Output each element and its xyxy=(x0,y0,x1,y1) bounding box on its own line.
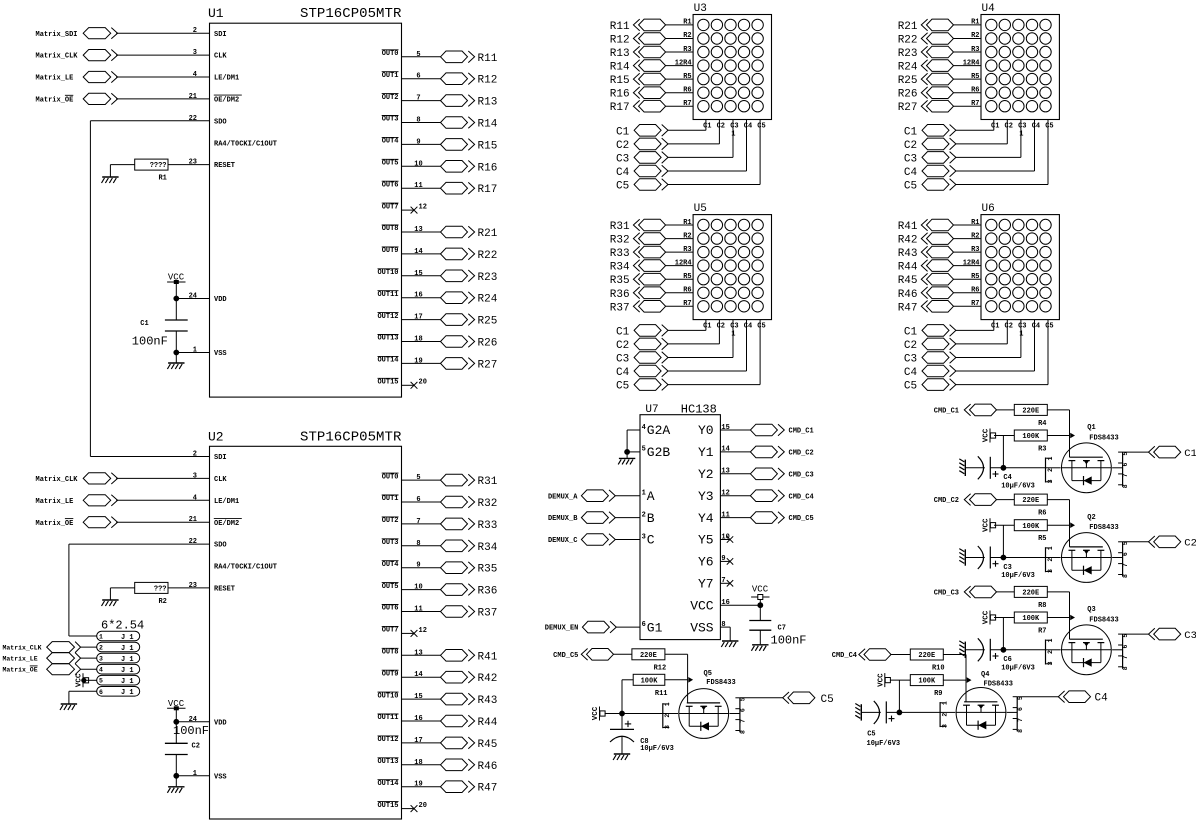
svg-text:13: 13 xyxy=(414,226,422,234)
svg-text:OUT14: OUT14 xyxy=(377,780,398,788)
svg-text:R17: R17 xyxy=(610,102,630,114)
svg-text:CMD_C1: CMD_C1 xyxy=(934,408,959,416)
svg-text:3: 3 xyxy=(1047,569,1054,573)
svg-text:12: 12 xyxy=(721,490,729,498)
svg-text:C1: C1 xyxy=(991,322,999,330)
svg-text:OE/DM2: OE/DM2 xyxy=(214,97,239,105)
svg-text:SDO: SDO xyxy=(214,118,227,126)
svg-text:7: 7 xyxy=(1122,563,1129,567)
svg-text:R9: R9 xyxy=(934,690,942,698)
svg-text:21: 21 xyxy=(189,93,197,101)
svg-text:R8: R8 xyxy=(1038,602,1046,610)
svg-text:OUT6: OUT6 xyxy=(382,605,399,613)
svg-text:VSS: VSS xyxy=(690,620,714,635)
svg-text:9: 9 xyxy=(416,562,420,570)
svg-text:22: 22 xyxy=(189,115,197,123)
svg-text:????: ???? xyxy=(150,162,167,170)
svg-text:1: 1 xyxy=(1047,639,1054,643)
svg-text:R23: R23 xyxy=(898,48,918,60)
svg-text:VCC: VCC xyxy=(877,673,885,687)
svg-text:R3: R3 xyxy=(971,46,979,54)
svg-text:C2: C2 xyxy=(616,340,629,352)
svg-text:C4: C4 xyxy=(904,367,918,379)
svg-text:10: 10 xyxy=(414,584,422,592)
svg-text:C3: C3 xyxy=(1184,630,1196,642)
svg-text:RESET: RESET xyxy=(214,586,235,594)
svg-text:C5: C5 xyxy=(821,694,834,706)
svg-text:R16: R16 xyxy=(478,162,498,174)
svg-text:R27: R27 xyxy=(478,359,498,371)
svg-text:C3: C3 xyxy=(616,153,629,165)
svg-text:6: 6 xyxy=(740,708,747,712)
svg-text:R7: R7 xyxy=(1038,628,1046,636)
svg-text:6: 6 xyxy=(1122,644,1129,648)
svg-text:LE/DM1: LE/DM1 xyxy=(214,75,239,83)
svg-text:U2: U2 xyxy=(208,429,224,444)
svg-text:R33: R33 xyxy=(478,520,498,532)
svg-text:16: 16 xyxy=(414,292,422,300)
svg-text:3: 3 xyxy=(99,656,103,663)
svg-text:6: 6 xyxy=(416,496,420,504)
svg-text:U6: U6 xyxy=(982,203,995,215)
svg-text:C5: C5 xyxy=(757,122,765,130)
svg-text:R24: R24 xyxy=(478,294,498,306)
svg-text:C4: C4 xyxy=(744,122,752,130)
svg-text:U5: U5 xyxy=(694,203,707,215)
svg-text:100nF: 100nF xyxy=(132,335,168,349)
svg-text:R1: R1 xyxy=(971,219,979,227)
svg-text:R22: R22 xyxy=(898,35,918,47)
svg-text:10: 10 xyxy=(414,160,422,168)
svg-text:10µF/6V3: 10µF/6V3 xyxy=(1001,482,1035,490)
svg-text:R12: R12 xyxy=(478,75,498,87)
svg-text:R11: R11 xyxy=(610,21,630,33)
svg-text:1: 1 xyxy=(193,347,197,355)
svg-text:C5: C5 xyxy=(1045,122,1053,130)
svg-text:C4: C4 xyxy=(744,322,752,330)
svg-text:OUT1: OUT1 xyxy=(382,495,399,503)
svg-text:100K: 100K xyxy=(1022,433,1040,441)
svg-text:R6: R6 xyxy=(971,87,979,95)
svg-text:R5: R5 xyxy=(683,273,691,281)
svg-text:6: 6 xyxy=(416,73,420,81)
svg-text:VCC: VCC xyxy=(168,699,185,709)
svg-text:6: 6 xyxy=(1122,462,1129,466)
svg-text:C2: C2 xyxy=(1005,322,1013,330)
svg-text:R42: R42 xyxy=(478,673,498,685)
svg-text:R7: R7 xyxy=(683,300,691,308)
svg-text:R31: R31 xyxy=(610,221,630,233)
svg-text:CMD_C2: CMD_C2 xyxy=(934,497,959,505)
svg-text:C7: C7 xyxy=(778,625,786,633)
svg-text:5: 5 xyxy=(416,51,420,59)
svg-text:3: 3 xyxy=(664,725,671,729)
svg-text:SDI: SDI xyxy=(214,31,227,39)
svg-text:CMD_C2: CMD_C2 xyxy=(789,450,814,458)
svg-text:R7: R7 xyxy=(971,300,979,308)
svg-text:2: 2 xyxy=(99,645,103,652)
svg-text:Matrix_LE: Matrix_LE xyxy=(3,656,38,663)
svg-text:R1: R1 xyxy=(683,19,691,27)
svg-text:R45: R45 xyxy=(898,275,918,287)
svg-text:VCC: VCC xyxy=(168,273,185,283)
svg-text:R34: R34 xyxy=(610,262,630,274)
svg-text:2: 2 xyxy=(941,713,948,717)
svg-text:Y1: Y1 xyxy=(698,445,714,460)
svg-text:R26: R26 xyxy=(478,338,498,350)
svg-text:CLK: CLK xyxy=(214,476,227,484)
svg-text:CMD_C5: CMD_C5 xyxy=(553,652,578,660)
svg-text:OUT15: OUT15 xyxy=(377,802,398,810)
svg-text:3: 3 xyxy=(941,724,948,728)
svg-text:R15: R15 xyxy=(610,75,630,87)
svg-text:R2: R2 xyxy=(683,232,691,240)
svg-text:4: 4 xyxy=(99,667,103,674)
svg-text:C2: C2 xyxy=(904,340,917,352)
svg-text:R6: R6 xyxy=(971,287,979,295)
svg-text:C5: C5 xyxy=(904,181,917,193)
svg-text:R11: R11 xyxy=(478,53,498,65)
svg-text:R31: R31 xyxy=(478,476,498,488)
svg-text:VSS: VSS xyxy=(214,350,227,358)
svg-text:C5: C5 xyxy=(616,181,629,193)
svg-text:7: 7 xyxy=(740,719,747,723)
svg-text:C5: C5 xyxy=(757,322,765,330)
svg-text:Matrix_CLK: Matrix_CLK xyxy=(36,476,79,484)
svg-text:15: 15 xyxy=(414,693,422,701)
svg-text:R2: R2 xyxy=(971,232,979,240)
svg-text:R33: R33 xyxy=(610,248,630,260)
svg-text:OUT5: OUT5 xyxy=(382,583,399,591)
svg-text:100nF: 100nF xyxy=(771,634,807,648)
svg-text:6: 6 xyxy=(99,689,103,696)
svg-text:8: 8 xyxy=(1122,666,1129,670)
svg-text:Y6: Y6 xyxy=(698,555,714,570)
svg-text:R43: R43 xyxy=(478,695,498,707)
svg-text:4: 4 xyxy=(642,424,646,432)
svg-text:Q4: Q4 xyxy=(981,671,989,679)
svg-text:11: 11 xyxy=(414,606,422,614)
svg-text:R36: R36 xyxy=(610,289,630,301)
svg-text:R13: R13 xyxy=(478,97,498,109)
svg-text:OUT9: OUT9 xyxy=(382,670,399,678)
svg-text:Q1: Q1 xyxy=(1087,424,1095,432)
svg-text:Matrix_CLK: Matrix_CLK xyxy=(3,645,42,652)
svg-text:VDD: VDD xyxy=(214,719,227,727)
svg-text:12R4: 12R4 xyxy=(963,59,980,67)
svg-text:R35: R35 xyxy=(478,564,498,576)
svg-text:1: 1 xyxy=(1047,457,1054,461)
svg-text:OUT6: OUT6 xyxy=(382,181,399,189)
svg-text:OUT3: OUT3 xyxy=(382,116,399,124)
svg-text:C1: C1 xyxy=(991,122,999,130)
svg-text:C2: C2 xyxy=(1005,122,1013,130)
svg-text:13: 13 xyxy=(414,649,422,657)
svg-text:8: 8 xyxy=(1017,729,1024,733)
svg-text:U7: U7 xyxy=(645,404,658,416)
svg-text:OUT11: OUT11 xyxy=(377,714,398,722)
svg-text:3: 3 xyxy=(193,49,197,57)
svg-text:24: 24 xyxy=(189,716,197,724)
svg-text:R21: R21 xyxy=(898,21,918,33)
svg-text:U4: U4 xyxy=(982,3,996,15)
svg-text:12: 12 xyxy=(419,627,427,635)
svg-text:12R4: 12R4 xyxy=(675,59,692,67)
svg-text:R3: R3 xyxy=(683,246,691,254)
svg-text:10µF/6V3: 10µF/6V3 xyxy=(1001,664,1035,672)
svg-text:OUT0: OUT0 xyxy=(382,50,399,58)
svg-text:C4: C4 xyxy=(616,367,630,379)
svg-text:C2: C2 xyxy=(192,743,200,751)
svg-text:STP16CP05MTR: STP16CP05MTR xyxy=(300,429,402,445)
svg-text:R14: R14 xyxy=(610,62,630,74)
svg-text:R1: R1 xyxy=(158,175,166,183)
svg-text:1: 1 xyxy=(1047,546,1054,550)
svg-text:7: 7 xyxy=(416,518,420,526)
svg-text:R5: R5 xyxy=(971,73,979,81)
svg-text:FDS8433: FDS8433 xyxy=(1089,434,1118,442)
svg-text:100nF: 100nF xyxy=(173,724,209,738)
svg-text:2: 2 xyxy=(1047,650,1054,654)
svg-text:11: 11 xyxy=(414,182,422,190)
svg-text:CMD_C5: CMD_C5 xyxy=(789,515,814,523)
svg-text:R34: R34 xyxy=(478,542,498,554)
svg-text:VSS: VSS xyxy=(214,773,227,781)
svg-text:R2: R2 xyxy=(971,32,979,40)
svg-text:OUT13: OUT13 xyxy=(377,335,398,343)
svg-text:OUT2: OUT2 xyxy=(382,517,399,525)
svg-text:J 1: J 1 xyxy=(121,667,134,675)
svg-text:DEMUX_EN: DEMUX_EN xyxy=(545,625,579,633)
svg-text:R6: R6 xyxy=(683,87,691,95)
svg-text:C5: C5 xyxy=(616,381,629,393)
svg-text:R17: R17 xyxy=(478,184,498,196)
svg-text:VCC: VCC xyxy=(983,518,991,532)
svg-text:4: 4 xyxy=(193,71,197,79)
svg-text:3: 3 xyxy=(1047,661,1054,665)
svg-text:10: 10 xyxy=(721,533,729,541)
svg-text:CLK: CLK xyxy=(214,53,227,61)
svg-text:R42: R42 xyxy=(898,235,918,247)
svg-text:13: 13 xyxy=(721,468,729,476)
svg-text:R46: R46 xyxy=(478,761,498,773)
svg-text:R41: R41 xyxy=(478,651,498,663)
svg-text:HC138: HC138 xyxy=(681,402,717,416)
svg-text:R1: R1 xyxy=(971,19,979,27)
svg-text:14: 14 xyxy=(721,446,729,454)
svg-text:Q3: Q3 xyxy=(1087,606,1095,614)
svg-text:R44: R44 xyxy=(898,262,918,274)
svg-text:R5: R5 xyxy=(683,73,691,81)
svg-text:G2A: G2A xyxy=(647,423,671,438)
svg-text:RA4/T0CKI/C1OUT: RA4/T0CKI/C1OUT xyxy=(214,564,277,572)
svg-text:R12: R12 xyxy=(610,35,630,47)
svg-text:OUT7: OUT7 xyxy=(382,203,399,211)
svg-text:R25: R25 xyxy=(478,316,498,328)
svg-text:OE/DM2: OE/DM2 xyxy=(214,520,239,528)
svg-text:CMD_C3: CMD_C3 xyxy=(789,471,814,479)
svg-text:220E: 220E xyxy=(1022,408,1039,416)
svg-text:C1: C1 xyxy=(1184,448,1196,460)
svg-text:R6: R6 xyxy=(1038,510,1046,518)
svg-text:7: 7 xyxy=(1017,718,1024,722)
svg-text:R11: R11 xyxy=(655,690,668,698)
svg-text:C2: C2 xyxy=(717,122,725,130)
svg-text:220E: 220E xyxy=(918,652,935,660)
svg-text:14: 14 xyxy=(414,248,422,256)
svg-text:Y4: Y4 xyxy=(698,511,714,526)
svg-text:5: 5 xyxy=(416,474,420,482)
svg-text:FDS8433: FDS8433 xyxy=(984,680,1013,688)
svg-text:Y3: Y3 xyxy=(698,489,714,504)
svg-text:8: 8 xyxy=(416,540,420,548)
svg-text:R6: R6 xyxy=(683,287,691,295)
svg-text:100K: 100K xyxy=(641,677,659,685)
svg-text:1: 1 xyxy=(941,701,948,705)
svg-text:R44: R44 xyxy=(478,717,498,729)
svg-text:R23: R23 xyxy=(478,272,498,284)
svg-text:OUT8: OUT8 xyxy=(382,225,399,233)
svg-text:C4: C4 xyxy=(616,167,630,179)
svg-text:B: B xyxy=(647,511,655,526)
svg-text:OUT13: OUT13 xyxy=(377,758,398,766)
svg-text:OUT14: OUT14 xyxy=(377,357,398,365)
svg-text:1: 1 xyxy=(99,634,103,641)
svg-text:10µF/6V3: 10µF/6V3 xyxy=(1001,572,1035,580)
svg-text:15: 15 xyxy=(721,424,729,432)
svg-text:R3: R3 xyxy=(683,46,691,54)
svg-text:LE/DM1: LE/DM1 xyxy=(214,498,239,506)
svg-text:1: 1 xyxy=(193,770,197,778)
svg-text:C1: C1 xyxy=(904,326,918,338)
svg-text:8: 8 xyxy=(740,730,747,734)
svg-text:6: 6 xyxy=(1122,552,1129,556)
svg-text:8: 8 xyxy=(721,621,725,629)
svg-text:RA4/T0CKI/C1OUT: RA4/T0CKI/C1OUT xyxy=(214,140,277,148)
svg-text:Matrix_SDI: Matrix_SDI xyxy=(36,31,78,39)
svg-text:24: 24 xyxy=(189,293,197,301)
svg-text:OUT4: OUT4 xyxy=(382,138,399,146)
svg-text:OUT12: OUT12 xyxy=(377,736,398,744)
svg-text:C3: C3 xyxy=(904,153,917,165)
svg-text:100K: 100K xyxy=(918,678,936,686)
svg-text:Y5: Y5 xyxy=(698,533,714,548)
svg-text:7: 7 xyxy=(1122,473,1129,477)
svg-text:R32: R32 xyxy=(610,235,630,247)
svg-text:VCC: VCC xyxy=(752,585,769,595)
svg-text:DEMUX_A: DEMUX_A xyxy=(548,493,578,501)
svg-text:OUT8: OUT8 xyxy=(382,649,399,657)
svg-text:1: 1 xyxy=(731,330,735,338)
svg-text:OUT11: OUT11 xyxy=(377,291,398,299)
svg-text:J 1: J 1 xyxy=(121,656,134,664)
svg-text:C4: C4 xyxy=(1032,322,1040,330)
svg-text:C3: C3 xyxy=(1018,322,1026,330)
svg-text:R5: R5 xyxy=(1038,535,1046,543)
svg-text:23: 23 xyxy=(189,159,197,167)
svg-text:1: 1 xyxy=(664,702,671,706)
svg-text:???: ??? xyxy=(154,586,167,594)
svg-text:FDS8433: FDS8433 xyxy=(1089,616,1118,624)
svg-text:3: 3 xyxy=(642,533,646,541)
svg-text:R14: R14 xyxy=(478,119,498,131)
svg-text:7: 7 xyxy=(1122,655,1129,659)
svg-text:C: C xyxy=(647,533,655,548)
svg-text:C2: C2 xyxy=(1184,538,1196,550)
svg-text:R7: R7 xyxy=(683,100,691,108)
svg-text:R41: R41 xyxy=(898,221,918,233)
svg-text:23: 23 xyxy=(189,582,197,590)
svg-text:C1: C1 xyxy=(703,122,711,130)
svg-text:Matrix_LE: Matrix_LE xyxy=(36,75,74,83)
svg-text:7: 7 xyxy=(721,577,725,585)
svg-text:C5: C5 xyxy=(1045,322,1053,330)
svg-text:17: 17 xyxy=(414,737,422,745)
svg-text:R5: R5 xyxy=(971,273,979,281)
svg-text:CMD_C3: CMD_C3 xyxy=(934,590,959,598)
svg-text:SDI: SDI xyxy=(214,454,227,462)
svg-text:1: 1 xyxy=(1019,330,1023,338)
svg-text:G2B: G2B xyxy=(647,445,671,460)
svg-text:R25: R25 xyxy=(898,75,918,87)
svg-text:Q5: Q5 xyxy=(704,670,712,678)
svg-text:12: 12 xyxy=(419,204,427,212)
svg-text:22: 22 xyxy=(189,538,197,546)
svg-text:OUT7: OUT7 xyxy=(382,627,399,635)
svg-text:R46: R46 xyxy=(898,289,918,301)
svg-text:1: 1 xyxy=(642,490,646,498)
svg-text:Matrix_OE: Matrix_OE xyxy=(3,667,38,674)
svg-text:C3: C3 xyxy=(730,122,738,130)
svg-text:11: 11 xyxy=(721,511,729,519)
svg-text:C2: C2 xyxy=(717,322,725,330)
svg-text:6: 6 xyxy=(1017,707,1024,711)
svg-text:9: 9 xyxy=(416,138,420,146)
svg-text:R10: R10 xyxy=(932,665,945,673)
svg-text:R47: R47 xyxy=(478,783,498,795)
svg-text:U3: U3 xyxy=(694,3,707,15)
svg-text:DEMUX_B: DEMUX_B xyxy=(548,515,578,523)
svg-text:R15: R15 xyxy=(478,140,498,152)
svg-text:Y7: Y7 xyxy=(698,577,714,592)
svg-text:Matrix_OE: Matrix_OE xyxy=(36,520,74,528)
svg-text:17: 17 xyxy=(414,314,422,322)
svg-text:C2: C2 xyxy=(616,140,629,152)
svg-text:18: 18 xyxy=(414,336,422,344)
svg-text:16: 16 xyxy=(721,599,729,607)
svg-text:R45: R45 xyxy=(478,739,498,751)
svg-text:Q2: Q2 xyxy=(1087,514,1095,522)
svg-text:R16: R16 xyxy=(610,89,630,101)
svg-text:C5: C5 xyxy=(904,381,917,393)
svg-text:100K: 100K xyxy=(1022,615,1040,623)
svg-text:G1: G1 xyxy=(647,620,663,635)
svg-text:OUT0: OUT0 xyxy=(382,473,399,481)
svg-text:5: 5 xyxy=(99,678,103,685)
svg-text:C5: C5 xyxy=(867,731,875,739)
svg-text:Matrix_LE: Matrix_LE xyxy=(36,498,74,506)
svg-text:FDS8433: FDS8433 xyxy=(706,679,735,687)
svg-text:20: 20 xyxy=(419,379,427,387)
svg-text:C6: C6 xyxy=(1003,656,1011,664)
svg-text:8: 8 xyxy=(1122,484,1129,488)
svg-text:VCC: VCC xyxy=(592,706,600,720)
svg-text:8: 8 xyxy=(1122,574,1129,578)
svg-text:Y0: Y0 xyxy=(698,423,714,438)
svg-text:Y2: Y2 xyxy=(698,467,714,482)
svg-text:U1: U1 xyxy=(208,6,224,21)
svg-text:21: 21 xyxy=(189,516,197,524)
